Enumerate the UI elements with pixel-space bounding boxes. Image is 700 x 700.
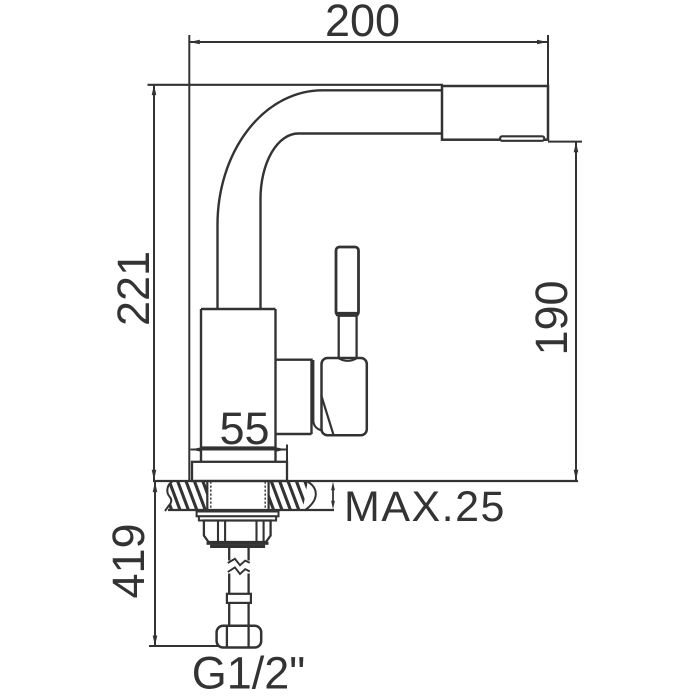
compression fitting nut (217, 626, 262, 648)
locknut washer ring 1 (197, 512, 279, 517)
countertop hatch left (160, 479, 223, 512)
svg-text:MAX.25: MAX.25 (344, 483, 506, 531)
dim 55 line (191, 449, 287, 451)
handle stem (339, 316, 357, 359)
tube collar (227, 594, 251, 603)
shank thread left dashed (210, 482, 212, 511)
svg-text:55: 55 (219, 403, 269, 454)
shank wall right (268, 481, 270, 511)
tube break zigzag upper (228, 559, 250, 565)
body step right (276, 360, 312, 434)
housing lever parting diagonal (321, 396, 333, 435)
MAX.25 thickness arrows (332, 487, 334, 504)
base flange (192, 462, 287, 481)
dim 55 right extension (286, 445, 288, 463)
faucet body (201, 309, 276, 462)
countertop hatch right (262, 479, 325, 512)
supply tube upper (229, 548, 248, 561)
grip bottom band (336, 312, 359, 316)
countertop right break curve (305, 481, 316, 511)
svg-text:G1/2": G1/2" (192, 648, 306, 699)
spout inner bend (261, 134, 444, 310)
locknut washer ring 2 (199, 516, 276, 520)
supply tube lower (229, 603, 248, 626)
dim 419 bottom extension (149, 645, 218, 647)
dim 419 line (154, 482, 156, 647)
stem socket dip (339, 358, 357, 361)
pipe crown / ext line y85 (148, 84, 444, 86)
locknut body (204, 521, 271, 543)
connector to handle housing (313, 360, 331, 432)
svg-text:190: 190 (526, 280, 577, 355)
extension line left x189 (188, 35, 190, 480)
svg-text:221: 221 (108, 251, 159, 326)
shank wall left (206, 481, 208, 511)
svg-text:419: 419 (103, 523, 154, 598)
supply tube middle (229, 574, 248, 594)
washer band 2 (210, 545, 265, 548)
svg-text:200: 200 (325, 0, 400, 46)
countertop bottom surface (168, 509, 334, 511)
fitting facets (227, 627, 249, 647)
shank thread right dashed (264, 482, 266, 511)
wire (148, 35, 583, 646)
dim 200 line (189, 41, 547, 43)
dim 190 line (575, 142, 577, 481)
countertop top surface (153, 480, 578, 482)
spout outer bend (218, 90, 444, 309)
dim 190 ext top (548, 141, 582, 143)
handle housing (322, 358, 367, 435)
spout head block (442, 86, 548, 140)
countertop left break curve (165, 481, 173, 511)
washer band 1 (207, 542, 269, 545)
aerator (500, 136, 544, 141)
extension line right x548 (547, 35, 549, 85)
tube break zigzag lower (228, 567, 250, 574)
locknut facets (218, 522, 264, 542)
dim 221 line (153, 84, 155, 480)
handle grip (336, 247, 359, 316)
